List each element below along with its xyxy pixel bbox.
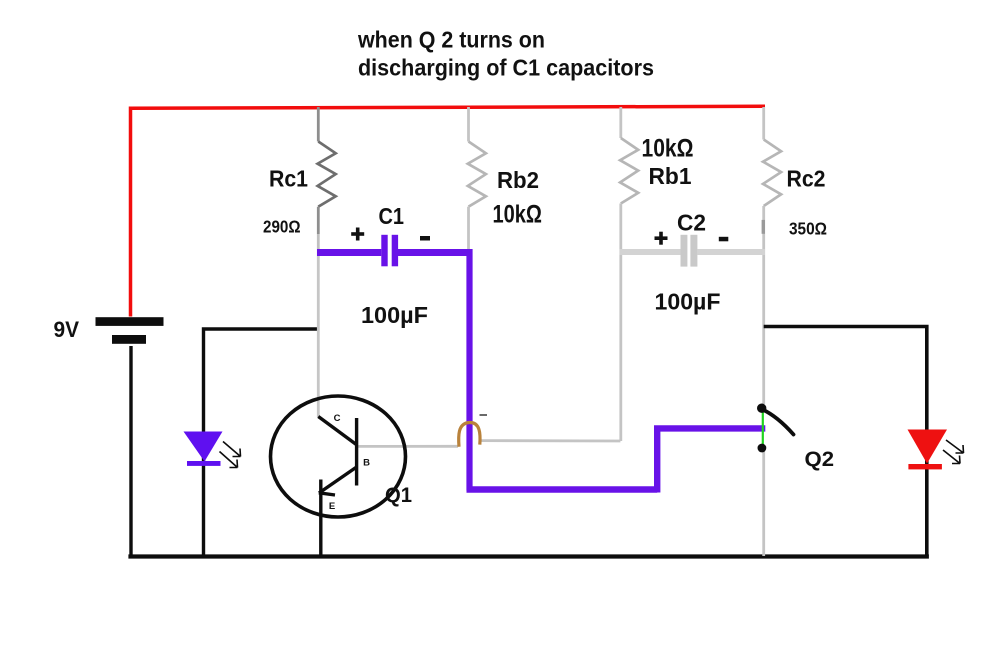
wire: node C1+ down to Q1 collector [317,251,320,417]
wire: LED1 branch (top horizontal + vertical) [204,329,319,556]
label C2 minus [719,237,729,242]
svg-text:350Ω: 350Ω [789,219,827,239]
wire: battery - to bottom rail [129,346,132,557]
capacitor C1 plates [381,235,398,266]
transistor Q1 [271,396,406,517]
wire: Q1 base wire (right segment from Rb1) [480,439,621,442]
wire jump (hop) over C1 discharge path [459,422,480,446]
resistor Rc2 [763,140,781,207]
wire: Rb1 bottom stem to C2 node [619,204,622,251]
capacitor C2 (gray) wires [620,249,766,255]
svg-text:discharging of C1 capacitors: discharging of C1 capacitors [358,54,654,80]
LED D1 (violet) [184,432,241,468]
label C1 plus [351,228,364,241]
label C2 plus [655,232,668,245]
svg-text:Rc2: Rc2 [787,166,826,192]
label C1 minus [420,236,430,241]
svg-text:Rb1: Rb1 [649,163,692,189]
resistor Rb2 [468,142,486,207]
wire: Rc2 top stem [762,107,765,140]
svg-text:Rc1: Rc1 [269,166,308,192]
wire: Rc1 bottom stem [317,207,320,234]
wire: Rb1 top stem [619,107,622,138]
title note [357,26,654,80]
wire: purple C1 discharge path [317,249,765,493]
wire: red V+ rail from battery + to top [131,106,766,316]
wire: bottom ground rail [128,554,929,558]
wire: Q1 base wire (left segment) [357,445,458,448]
svg-text:E: E [329,501,335,512]
svg-text:when Q 2 turns on: when Q 2 turns on [357,26,545,52]
wire: Rb2 bottom stem [467,207,470,249]
svg-text:Rb2: Rb2 [497,167,539,193]
svg-text:100µF: 100µF [361,302,428,328]
resistor Rb1 [620,138,638,204]
svg-text:10kΩ: 10kΩ [493,201,543,229]
resistor Rc1 [318,142,336,207]
label minus near hop [480,414,488,416]
capacitor C2 plates [681,235,698,267]
svg-text:100µF: 100µF [655,289,721,315]
wire: C2+ node down toward Q1 base [619,250,622,441]
svg-text:C2: C2 [677,210,706,236]
wire: Q2 collector node down to switch [762,250,765,404]
svg-text:C: C [334,413,341,424]
wire: Rc1 top stem [317,107,320,142]
transistor Q2 (shown as closed switch) [757,404,794,453]
battery 9V [96,317,164,344]
svg-text:C1: C1 [379,203,405,229]
LED D2 (red) [908,430,964,470]
svg-text:Q1: Q1 [385,483,412,507]
svg-text:10kΩ: 10kΩ [642,135,694,163]
svg-text:Q2: Q2 [805,447,835,471]
wire: below Q2 switch to ground rail [762,450,765,556]
wire: Q1 emitter to ground rail [319,480,322,557]
wire: Rc2 bottom stem [762,206,765,250]
wire: Rc2 node to LED2 branch (black) [764,327,927,557]
svg-text:9V: 9V [54,317,80,342]
svg-text:290Ω: 290Ω [263,217,301,237]
wire: Rb2 top stem [467,107,470,142]
svg-text:B: B [363,458,370,469]
